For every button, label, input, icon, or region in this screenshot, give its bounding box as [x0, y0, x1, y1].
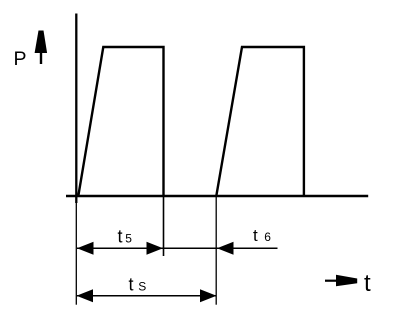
svg-text:5: 5 [125, 232, 132, 246]
svg-text:t: t [129, 275, 134, 295]
svg-text:t: t [118, 227, 123, 247]
svg-text:S: S [138, 280, 146, 294]
svg-text:P: P [14, 48, 27, 70]
svg-text:t: t [364, 270, 371, 297]
svg-text:t: t [253, 226, 258, 245]
svg-text:6: 6 [264, 230, 271, 244]
